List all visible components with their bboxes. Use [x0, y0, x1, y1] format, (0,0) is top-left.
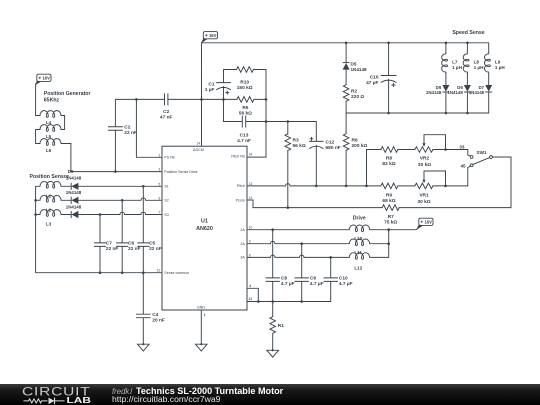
svg-text:C10: C10	[339, 275, 348, 281]
svg-text:L8: L8	[474, 60, 480, 65]
svg-text:1N4148: 1N4148	[66, 175, 82, 180]
svg-text:Pitch FB: Pitch FB	[231, 155, 245, 159]
svg-text:5: 5	[159, 182, 161, 186]
svg-text:1N4148: 1N4148	[447, 90, 463, 95]
svg-text:12: 12	[157, 269, 161, 273]
svg-text:D0: D0	[68, 169, 74, 174]
svg-text:2A: 2A	[240, 242, 245, 246]
svg-text:22 nF: 22 nF	[124, 130, 137, 136]
svg-text:R2: R2	[351, 89, 357, 95]
svg-text:U1: U1	[201, 218, 208, 224]
svg-text:AN620: AN620	[196, 226, 213, 232]
svg-text:L6: L6	[46, 148, 52, 153]
svg-text:LAB: LAB	[67, 396, 92, 405]
svg-text:6: 6	[159, 196, 161, 200]
svg-text:R5: R5	[242, 105, 248, 111]
svg-text:Speed Sense: Speed Sense	[452, 30, 484, 36]
svg-text:PS FB: PS FB	[164, 156, 175, 160]
svg-text:45: 45	[460, 164, 466, 169]
svg-text:16V: 16V	[209, 33, 217, 38]
svg-text:4.7 µF: 4.7 µF	[281, 281, 295, 287]
svg-text:D5: D5	[351, 62, 357, 67]
svg-text:Position Sense Drive: Position Sense Drive	[164, 170, 197, 174]
svg-text:30 kΩ: 30 kΩ	[418, 162, 431, 168]
svg-text:1N4148: 1N4148	[469, 90, 485, 95]
svg-text:30 kΩ: 30 kΩ	[417, 199, 430, 205]
svg-text:22 nF: 22 nF	[106, 246, 119, 252]
svg-text:L4: L4	[46, 120, 52, 125]
svg-text:75 kΩ: 75 kΩ	[384, 220, 397, 226]
svg-text:S1: S1	[164, 185, 168, 189]
svg-text:11: 11	[249, 297, 253, 301]
svg-text:C2: C2	[124, 125, 130, 131]
svg-text:200 kΩ: 200 kΩ	[352, 143, 368, 149]
svg-text:C5: C5	[149, 240, 155, 246]
svg-text:1N4148: 1N4148	[426, 90, 442, 95]
svg-text:L7: L7	[452, 60, 458, 65]
svg-text:4.7 nF: 4.7 nF	[237, 138, 251, 144]
svg-text:8: 8	[249, 253, 251, 257]
svg-text:47 µF: 47 µF	[366, 80, 378, 86]
svg-text:http://circuitlab.com/ccr7wa9: http://circuitlab.com/ccr7wa9	[112, 394, 221, 404]
svg-text:24: 24	[249, 152, 253, 156]
svg-text:1 µH: 1 µH	[474, 65, 484, 70]
svg-text:Position Generator: Position Generator	[44, 91, 91, 97]
svg-text:1 µH: 1 µH	[495, 65, 505, 70]
svg-text:20 nF: 20 nF	[152, 317, 165, 323]
svg-text:47 nF: 47 nF	[160, 114, 173, 120]
svg-text:R3: R3	[293, 138, 299, 144]
svg-text:12: 12	[249, 196, 253, 200]
svg-text:R6: R6	[352, 138, 358, 144]
svg-text:R7: R7	[388, 214, 394, 220]
svg-text:68 kΩ: 68 kΩ	[382, 198, 395, 204]
svg-text:L1: L1	[46, 194, 52, 199]
svg-text:L2: L2	[46, 208, 52, 213]
svg-text:L12: L12	[354, 265, 362, 270]
svg-text:4.7 µF: 4.7 µF	[339, 281, 353, 287]
svg-text:C2: C2	[163, 109, 169, 115]
svg-text:65Khz: 65Khz	[44, 98, 60, 104]
svg-text:Pitch: Pitch	[237, 184, 245, 188]
svg-text:3: 3	[159, 168, 161, 172]
svg-text:10: 10	[249, 226, 253, 230]
svg-text:S3: S3	[164, 213, 168, 217]
svg-text:Drive: Drive	[353, 216, 366, 222]
svg-text:22 nF: 22 nF	[128, 246, 141, 252]
svg-text:L11: L11	[354, 250, 362, 255]
svg-text:VR2: VR2	[420, 156, 430, 162]
svg-text:1 µF: 1 µF	[205, 87, 215, 93]
svg-text:Position Sensor: Position Sensor	[30, 174, 70, 180]
svg-text:56 kΩ: 56 kΩ	[293, 143, 306, 149]
svg-text:C6: C6	[128, 240, 134, 246]
svg-text:C4: C4	[152, 312, 158, 318]
svg-text:1 µH: 1 µH	[452, 65, 462, 70]
svg-text:L10: L10	[354, 236, 362, 241]
svg-text:4.7 µF: 4.7 µF	[310, 281, 324, 287]
svg-text:C1: C1	[208, 82, 214, 88]
svg-text:16V: 16V	[42, 76, 50, 81]
svg-text:C13: C13	[240, 133, 249, 139]
svg-text:Pcom: Pcom	[236, 198, 245, 202]
svg-text:C10: C10	[370, 75, 379, 81]
svg-text:4: 4	[249, 284, 251, 288]
svg-text:C7: C7	[106, 240, 112, 246]
svg-text:1N4148: 1N4148	[351, 67, 368, 72]
svg-text:22 nF: 22 nF	[149, 246, 162, 252]
svg-text:C9: C9	[310, 275, 316, 281]
svg-text:VR1: VR1	[419, 193, 429, 199]
svg-text:220 Ω: 220 Ω	[351, 94, 364, 100]
svg-text:82 kΩ: 82 kΩ	[382, 161, 395, 167]
svg-text:S2: S2	[164, 199, 168, 203]
svg-text:33: 33	[459, 145, 465, 150]
svg-text:2: 2	[159, 153, 161, 157]
svg-text:Sense common: Sense common	[164, 271, 189, 275]
svg-text:R10: R10	[240, 80, 249, 86]
svg-text:L9: L9	[495, 60, 501, 65]
svg-text:7: 7	[159, 211, 161, 215]
svg-text:L3: L3	[46, 222, 52, 227]
svg-text:1: 1	[204, 313, 206, 317]
svg-text:1A: 1A	[240, 228, 245, 232]
svg-text:56 kΩ: 56 kΩ	[239, 111, 252, 117]
svg-text:SW1: SW1	[477, 150, 487, 155]
svg-text:3A: 3A	[240, 256, 245, 260]
svg-text:150 kΩ: 150 kΩ	[237, 85, 253, 91]
svg-text:GND: GND	[197, 305, 205, 309]
svg-text:9: 9	[249, 240, 251, 244]
svg-text:R1: R1	[278, 323, 284, 329]
svg-text:1N4148: 1N4148	[66, 204, 82, 209]
svg-text:14: 14	[196, 142, 200, 146]
svg-text:680 nF: 680 nF	[326, 145, 341, 151]
svg-text:C12: C12	[326, 140, 335, 146]
svg-text:R8: R8	[386, 156, 392, 162]
svg-text:16V: 16V	[424, 220, 432, 225]
svg-text:L5: L5	[46, 134, 52, 139]
svg-text:R9: R9	[386, 193, 392, 199]
svg-text:1N4148: 1N4148	[66, 190, 82, 195]
svg-text:13: 13	[249, 182, 253, 186]
svg-text:C8: C8	[281, 275, 287, 281]
svg-text:AOCM: AOCM	[193, 148, 204, 152]
